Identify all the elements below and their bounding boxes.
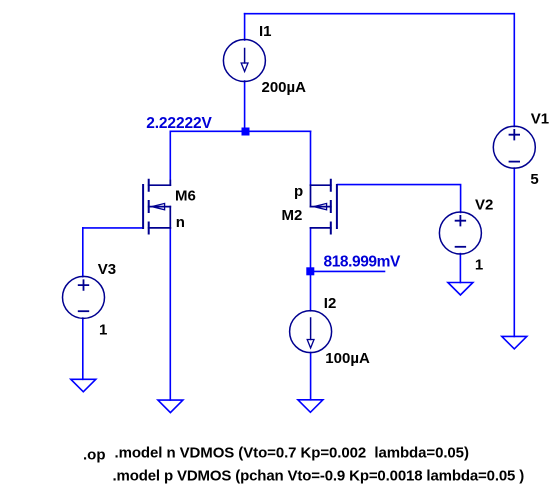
ground below V3 (71, 379, 96, 392)
svg-text:I2: I2 (324, 295, 337, 312)
wire V2 bottom to ground (459, 254, 461, 283)
wire M6 gate to V3 (83, 227, 143, 229)
svg-text:V2: V2 (475, 197, 493, 214)
ground below M6 (158, 400, 183, 413)
ground below V2 (448, 283, 473, 296)
voltage source V2 (439, 212, 481, 254)
current source I2 (290, 311, 332, 353)
svg-text:M6: M6 (175, 188, 196, 205)
node A junction 2.22222V (242, 128, 250, 136)
node B junction 818.999mV (306, 267, 314, 275)
wire I2 bottom to ground (310, 352, 312, 399)
wire M6 source to ground (169, 228, 171, 400)
svg-text:V1: V1 (531, 111, 549, 128)
svg-text:I1: I1 (259, 23, 272, 40)
svg-text:.model n VDMOS (Vto=0.7 Kp=0.0: .model n VDMOS (Vto=0.7 Kp=0.002 lambda=… (115, 445, 469, 462)
svg-text:.op: .op (83, 447, 106, 464)
svg-text:p: p (294, 183, 303, 200)
wire M6 drain drop (169, 131, 171, 185)
svg-text:V3: V3 (98, 261, 116, 278)
ground below I2 (298, 400, 323, 413)
transistor M2 pmos (311, 180, 337, 234)
ground below V1 (502, 336, 527, 349)
svg-text:2.22222V: 2.22222V (146, 115, 212, 132)
svg-text:200µA: 200µA (262, 79, 307, 96)
current source I1 (223, 40, 265, 82)
wire V3 bottom to ground (82, 318, 84, 379)
svg-text:5: 5 (530, 171, 538, 188)
svg-text:1: 1 (99, 321, 107, 338)
wire M2 gate to V2 (338, 185, 461, 213)
wire mid rail node 2.22222V (170, 130, 310, 132)
svg-text:.model p VDMOS (pchan Vto=-0.9: .model p VDMOS (pchan Vto=-0.9 Kp=0.0018… (113, 468, 525, 485)
voltage source V1 (493, 126, 535, 168)
svg-text:100µA: 100µA (325, 350, 370, 367)
svg-text:818.999mV: 818.999mV (324, 254, 401, 271)
transistor M6 nmos (143, 180, 170, 234)
wire V3 top stem (82, 228, 84, 277)
wire top rail (245, 13, 515, 15)
wire node stub 818.999mV (311, 270, 385, 272)
wire right vertical to V1 (513, 14, 515, 127)
voltage source V3 (63, 276, 105, 318)
wire M2 drain to I2 (310, 228, 312, 311)
svg-text:1: 1 (475, 257, 483, 274)
wire V1 bottom to ground (513, 168, 515, 336)
wire I1 top stem (244, 14, 246, 40)
svg-text:n: n (176, 214, 185, 231)
wire I1 bottom to node (244, 81, 246, 131)
wire M2 source drop (310, 131, 312, 185)
svg-text:M2: M2 (282, 207, 303, 224)
